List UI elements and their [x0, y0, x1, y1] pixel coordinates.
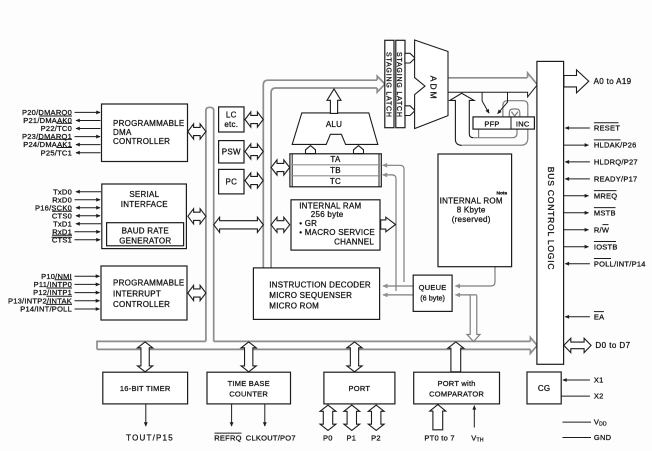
VTH input line	[473, 406, 475, 428]
svg-text:MICRO SEQUENSER: MICRO SEQUENSER	[269, 291, 352, 300]
top bus hollow arrowhead into staging latch	[377, 76, 385, 92]
CTS1 input	[75, 239, 101, 241]
register stack top bumps	[306, 146, 316, 154]
up hollow arrow into ADM from PFP loop	[450, 93, 474, 145]
svg-text:P25/TC1: P25/TC1	[41, 148, 72, 157]
RxD1 input	[75, 231, 101, 233]
hollow arrow DMA to bus1	[188, 124, 206, 139]
PFP box	[473, 117, 534, 129]
black wire: ADM to PFP with arrowhead	[448, 85, 537, 97]
svg-text:8 Kbyte: 8 Kbyte	[457, 206, 486, 215]
wire: internal ROM to queue	[456, 267, 496, 286]
X1 input to CG	[563, 379, 590, 381]
RxD0 input	[75, 199, 101, 201]
svg-text:CONTROLLER: CONTROLLER	[113, 300, 170, 309]
svg-text:PROGRAMMABLE: PROGRAMMABLE	[113, 279, 184, 288]
CG box	[527, 372, 561, 404]
A0 to A19 hollow arrow	[564, 70, 589, 93]
gray loop: inner arch over INC with arrow notch	[509, 109, 520, 117]
svg-text:IOSTB: IOSTB	[594, 242, 618, 251]
bottom bus hollow arrowhead into bus control logic	[530, 337, 537, 353]
svg-text:HLDRQ/P27: HLDRQ/P27	[594, 158, 638, 167]
hollow arrow bus2 to internal RAM	[271, 217, 290, 232]
port box	[324, 372, 395, 404]
svg-text:• MACRO SERVICE: • MACRO SERVICE	[299, 228, 375, 237]
black branch wire to PFP (left arm)	[482, 92, 489, 113]
hollow arrow PT0 to 7 into comparator	[430, 405, 446, 430]
RAM output hollow arrow to wire B	[381, 217, 396, 232]
CTS0 bidirectional	[76, 215, 100, 217]
svg-text:MSTB: MSTB	[594, 208, 616, 217]
svg-text:X2: X2	[594, 392, 604, 401]
svg-text:CLKOUT/PO7: CLKOUT/PO7	[246, 433, 296, 442]
svg-text:TOUT/P15: TOUT/P15	[126, 433, 174, 442]
svg-text:CONTROLLER: CONTROLLER	[113, 137, 170, 146]
address bus hollow arrowhead	[528, 73, 538, 85]
HLDAK/P26 output	[564, 144, 589, 146]
16-bit timer box	[103, 372, 188, 404]
svg-text:PT0 to 7: PT0 to 7	[424, 433, 454, 442]
RESET input	[565, 127, 590, 129]
svg-text:P0: P0	[323, 433, 333, 442]
svg-text:READY/P17: READY/P17	[594, 175, 638, 184]
P22/TC0 output	[76, 128, 101, 130]
internal ROM box	[438, 154, 512, 267]
hollow arrow bus1 to bus2 long	[214, 217, 264, 232]
programmable DMA controller box	[102, 104, 188, 162]
INC box	[510, 117, 512, 129]
svg-text:PC: PC	[225, 177, 237, 186]
time base counter output CLKOUT/PO7	[264, 404, 266, 426]
hollow arrow PC to bus2	[245, 173, 263, 188]
main internal bus 2 (second vertical gray bus turning right into top horizontal bus to staging latch)	[263, 80, 377, 267]
gray loop: PFP bottom stub	[478, 129, 480, 138]
GND line	[563, 437, 592, 439]
READY/P17 input	[565, 178, 590, 180]
P20/DMARQ0 input	[75, 111, 101, 113]
P13/INTP2/INTAK input	[75, 300, 100, 302]
hollow arrow comparator to bus (up)	[448, 342, 464, 372]
wire: queue upper output to instruction decoder	[383, 285, 413, 287]
gray loop: duct top line into INC bottom	[474, 129, 517, 138]
R/W output	[564, 229, 589, 231]
staging latch to ADM bumps	[405, 53, 415, 63]
svg-text:PSW: PSW	[222, 148, 241, 157]
address bus ADM to bus control logic	[448, 77, 527, 79]
bus control logic box	[537, 61, 564, 364]
svg-text:(reserved): (reserved)	[452, 215, 491, 224]
wire: queue lower output to instruction decoder	[383, 294, 413, 296]
P21/DMAAK0 output	[76, 120, 101, 122]
svg-text:16-BIT TIMER: 16-BIT TIMER	[120, 384, 171, 393]
svg-text:PROGRAMMABLE: PROGRAMMABLE	[113, 119, 184, 128]
TA/TB/TC register stack	[290, 154, 381, 187]
svg-text:PFP: PFP	[484, 119, 499, 128]
svg-text:• GR: • GR	[299, 219, 317, 228]
ADM multiplexer	[415, 40, 448, 129]
queue down bus open arrowhead	[467, 335, 480, 342]
queue box	[413, 275, 452, 311]
svg-text:etc.: etc.	[224, 120, 238, 129]
svg-text:REFRQ: REFRQ	[214, 433, 242, 442]
svg-text:MREQ: MREQ	[594, 191, 618, 200]
svg-text:INTERRUPT: INTERRUPT	[113, 289, 161, 298]
main internal bus 1 (left vertical gray bus)	[206, 107, 214, 341]
svg-text:R/W: R/W	[594, 225, 610, 234]
svg-text:INSTRUCTION DECODER: INSTRUCTION DECODER	[269, 280, 371, 289]
svg-text:INC: INC	[516, 119, 530, 128]
svg-text:PORT with: PORT with	[437, 379, 475, 388]
EA input	[565, 316, 590, 318]
P23/DMARQ1 input	[75, 136, 101, 138]
svg-text:P2: P2	[371, 433, 381, 442]
ALU	[292, 113, 378, 144]
svg-text:GENERATOR: GENERATOR	[119, 237, 171, 246]
svg-text:INTERNAL ROM: INTERNAL ROM	[440, 196, 503, 205]
svg-text:INTERNAL RAM: INTERNAL RAM	[299, 201, 361, 210]
LC etc. box	[219, 107, 244, 132]
svg-text:PORT: PORT	[349, 384, 371, 393]
staging latch 2	[396, 40, 405, 127]
baud rate generator box	[107, 223, 184, 246]
staging latch 1	[385, 40, 394, 127]
hollow arrow bus to port	[347, 342, 362, 372]
VDD line	[563, 421, 592, 423]
svg-text:X1: X1	[594, 376, 604, 385]
P25/TC1 output	[76, 152, 101, 154]
HLDRQ/P27 input	[565, 161, 590, 163]
svg-text:POLL/INT/P14: POLL/INT/P14	[594, 259, 646, 268]
hollow arrow port P0	[320, 405, 336, 430]
P16/SCK0 bidirectional	[76, 207, 100, 209]
hollow arrow bus2 to register stack	[271, 160, 290, 175]
svg-text:P14/INT/POLL: P14/INT/POLL	[20, 305, 72, 314]
P11/INTP0 input	[75, 283, 100, 285]
svg-text:ADM: ADM	[428, 76, 438, 101]
svg-text:256 byte: 256 byte	[311, 210, 344, 219]
svg-text:EA: EA	[594, 312, 605, 321]
svg-text:A0 to A19: A0 to A19	[594, 77, 632, 86]
MREQ output	[564, 195, 589, 197]
hollow arrow port P1	[344, 405, 360, 430]
IOSTB output	[564, 246, 589, 248]
svg-text:INTERFACE: INTERFACE	[121, 200, 168, 209]
svg-text:P1: P1	[347, 433, 357, 442]
svg-text:RESET: RESET	[594, 124, 620, 133]
ALU output hollow up arrow	[327, 89, 341, 114]
svg-text:TC: TC	[330, 177, 341, 186]
svg-text:HLDAK/P26: HLDAK/P26	[594, 141, 637, 150]
svg-text:TA: TA	[330, 155, 341, 164]
svg-text:(6 byte): (6 byte)	[420, 293, 445, 302]
svg-text:TB: TB	[330, 166, 341, 175]
wire A: queue to TA/TB register stack (vertical)	[383, 165, 404, 282]
programmable interrupt controller box	[101, 266, 187, 320]
hollow arrow interrupt to bus1	[188, 285, 206, 300]
TxD1 output	[76, 223, 101, 225]
svg-text:LC: LC	[226, 111, 237, 120]
queue down bus to bottom main bus	[470, 295, 477, 335]
svg-text:BAUD RATE: BAUD RATE	[122, 226, 169, 235]
TxD0 output	[76, 191, 101, 193]
serial interface box	[102, 184, 187, 249]
P14/INT/POLL input	[75, 308, 100, 310]
svg-text:MICRO ROM: MICRO ROM	[269, 302, 319, 311]
hollow arrow serial to bus1	[188, 209, 206, 224]
svg-text:D0 to D7: D0 to D7	[595, 341, 630, 350]
X2 line	[561, 395, 590, 397]
wire: bus into queue lower right	[456, 294, 477, 296]
svg-text:CHANNEL: CHANNEL	[334, 238, 374, 247]
hollow arrow bus to 16-bit timer	[138, 342, 153, 372]
svg-text:TIME BASE: TIME BASE	[228, 379, 270, 388]
svg-text:CTS1: CTS1	[52, 235, 72, 244]
MSTB output	[564, 212, 589, 214]
instruction decoder box	[253, 268, 379, 320]
P10/NMI input	[75, 275, 100, 277]
bottom main bus (horizontal gray bus)	[97, 341, 530, 349]
hollow arrow PSW to bus2	[245, 144, 263, 159]
svg-text:QUEUE: QUEUE	[419, 283, 447, 292]
svg-text:SERIAL: SERIAL	[129, 190, 159, 199]
svg-text:ALU: ALU	[326, 120, 342, 129]
timer output TOUT/P15	[145, 404, 147, 426]
hollow arrow port P2	[368, 405, 384, 430]
time base counter output REFRQ	[231, 404, 233, 426]
D0 to D7 hollow double arrow	[564, 338, 591, 352]
svg-text:STAGING LATCH: STAGING LATCH	[395, 52, 402, 118]
P12/INTP1 input	[75, 292, 100, 294]
svg-text:CG: CG	[538, 384, 551, 393]
PSW box	[219, 141, 244, 163]
gray loop: PFP/INC outer feedback loop	[457, 101, 528, 146]
svg-text:STAGING LATCH: STAGING LATCH	[385, 52, 392, 118]
hollow arrow LC to bus2	[245, 112, 263, 127]
port with comparator box	[414, 372, 500, 404]
time base counter box	[207, 372, 291, 404]
svg-text:GND: GND	[594, 433, 612, 442]
black wire: PFP to address bus (bidirectional diagonals)	[498, 92, 508, 113]
svg-text:BUS CONTROL LOGIC: BUS CONTROL LOGIC	[546, 167, 556, 270]
svg-text:COMPARATOR: COMPARATOR	[429, 389, 484, 398]
hollow arrow bus to time base counter	[241, 342, 256, 372]
svg-text:COUNTER: COUNTER	[229, 389, 268, 398]
wire B: queue to TC register stack (vertical)	[383, 175, 396, 291]
svg-text:DMA: DMA	[113, 128, 132, 137]
POLL/INT/P14 input	[565, 263, 590, 265]
PC box	[219, 169, 244, 194]
P24/DMAAK1 output	[76, 144, 101, 146]
internal RAM box	[291, 200, 380, 250]
